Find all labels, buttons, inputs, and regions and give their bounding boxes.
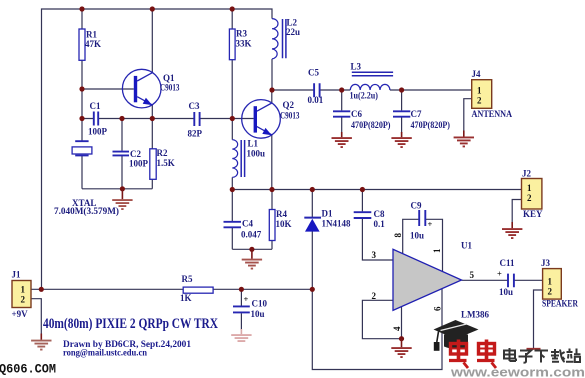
svg-text:1: 1 bbox=[527, 183, 532, 193]
svg-text:1N4148: 1N4148 bbox=[322, 219, 351, 229]
svg-text:R3: R3 bbox=[236, 29, 247, 39]
svg-text:J4: J4 bbox=[472, 69, 482, 79]
svg-text:2: 2 bbox=[477, 96, 482, 106]
svg-text:+: + bbox=[497, 269, 502, 279]
svg-text:J2: J2 bbox=[522, 169, 532, 179]
svg-text:L2: L2 bbox=[287, 18, 298, 28]
svg-text:7.040M(3.579M): 7.040M(3.579M) bbox=[54, 206, 119, 216]
svg-text:C5: C5 bbox=[308, 68, 319, 78]
svg-text:1: 1 bbox=[548, 277, 553, 287]
svg-text:22u: 22u bbox=[286, 27, 300, 37]
svg-text:C6: C6 bbox=[351, 109, 362, 119]
svg-text:ANTENNA: ANTENNA bbox=[472, 109, 513, 119]
svg-text:J1: J1 bbox=[12, 270, 22, 280]
svg-text:Q606.COM: Q606.COM bbox=[0, 362, 56, 377]
svg-text:R5: R5 bbox=[182, 274, 193, 284]
svg-text:47K: 47K bbox=[85, 39, 101, 49]
svg-text:2: 2 bbox=[372, 291, 377, 301]
svg-text:1.5K: 1.5K bbox=[157, 158, 175, 168]
svg-text:8: 8 bbox=[393, 233, 403, 238]
svg-text:470P(820P): 470P(820P) bbox=[351, 120, 391, 130]
svg-text:1: 1 bbox=[21, 285, 26, 295]
svg-text:1: 1 bbox=[432, 248, 442, 253]
svg-text:C10: C10 bbox=[252, 299, 268, 309]
svg-text:0.01: 0.01 bbox=[308, 95, 324, 105]
svg-text:100P: 100P bbox=[88, 127, 108, 137]
svg-text:5: 5 bbox=[470, 270, 475, 280]
svg-text:1u(2.2u): 1u(2.2u) bbox=[350, 91, 379, 101]
svg-text:100u: 100u bbox=[247, 149, 266, 159]
svg-text:L1: L1 bbox=[248, 139, 259, 149]
svg-text:D1: D1 bbox=[322, 209, 333, 219]
svg-text:0.1: 0.1 bbox=[374, 219, 386, 229]
svg-text:SPEAKER: SPEAKER bbox=[542, 299, 578, 309]
svg-text:2: 2 bbox=[527, 193, 532, 203]
svg-text:Q2: Q2 bbox=[283, 100, 295, 110]
svg-text:U1: U1 bbox=[461, 241, 472, 251]
svg-text:R1: R1 bbox=[86, 30, 97, 40]
svg-text:2: 2 bbox=[21, 295, 26, 305]
svg-text:1K: 1K bbox=[180, 293, 192, 303]
svg-text:3: 3 bbox=[372, 250, 377, 260]
svg-text:www.eeworm.com: www.eeworm.com bbox=[450, 366, 585, 378]
svg-text:C4: C4 bbox=[242, 219, 253, 229]
svg-text:10u: 10u bbox=[410, 231, 424, 241]
svg-text:+9V: +9V bbox=[12, 309, 29, 319]
svg-text:10K: 10K bbox=[276, 219, 292, 229]
svg-text:4: 4 bbox=[392, 326, 402, 331]
svg-text:J3: J3 bbox=[541, 258, 551, 268]
svg-text:100P: 100P bbox=[129, 159, 149, 169]
svg-text:C7: C7 bbox=[411, 109, 422, 119]
svg-text:C9: C9 bbox=[411, 201, 422, 211]
svg-text:L3: L3 bbox=[351, 62, 362, 72]
svg-text:C1: C1 bbox=[90, 101, 101, 111]
svg-text:10u: 10u bbox=[251, 309, 265, 319]
svg-text:R4: R4 bbox=[276, 209, 287, 219]
svg-text:C2: C2 bbox=[130, 149, 141, 159]
svg-text:33K: 33K bbox=[236, 39, 252, 49]
svg-text:1: 1 bbox=[477, 86, 482, 96]
svg-text:+: + bbox=[428, 219, 433, 229]
svg-text:470P(820P): 470P(820P) bbox=[411, 120, 451, 130]
svg-text:0.047: 0.047 bbox=[241, 230, 262, 240]
svg-text:Q1: Q1 bbox=[163, 73, 175, 83]
svg-text:C9013: C9013 bbox=[160, 83, 180, 93]
svg-text:6: 6 bbox=[433, 306, 443, 311]
svg-text:KEY: KEY bbox=[523, 209, 543, 219]
svg-text:+: + bbox=[244, 294, 249, 304]
svg-text:rong@mail.ustc.edu.cn: rong@mail.ustc.edu.cn bbox=[63, 349, 148, 359]
svg-text:10u: 10u bbox=[499, 287, 513, 297]
svg-text:C11: C11 bbox=[500, 258, 516, 268]
svg-text:40m(80m) PIXIE 2 QRPp CW TRX: 40m(80m) PIXIE 2 QRPp CW TRX bbox=[43, 316, 218, 332]
svg-text:C3: C3 bbox=[189, 101, 200, 111]
svg-text:82P: 82P bbox=[188, 129, 203, 139]
svg-text:C8: C8 bbox=[374, 209, 385, 219]
svg-text:LM386: LM386 bbox=[461, 310, 489, 320]
svg-text:R2: R2 bbox=[157, 148, 168, 158]
svg-text:C9013: C9013 bbox=[280, 111, 300, 121]
svg-text:2: 2 bbox=[548, 287, 553, 297]
